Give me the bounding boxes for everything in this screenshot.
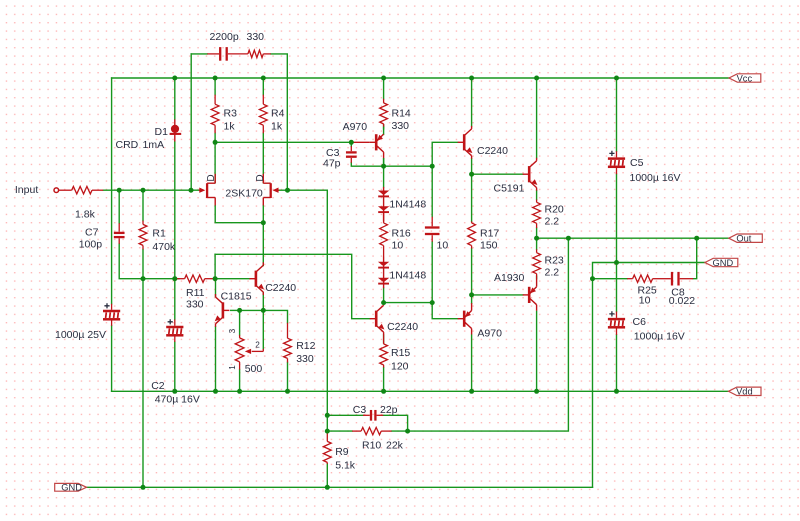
wire R3 bottom to drain [214, 133, 216, 183]
label R12 [296, 340, 315, 352]
label A970 lower [477, 327, 502, 339]
transistor Q9 C1815 [215, 294, 230, 327]
svg-text:0.022: 0.022 [669, 295, 695, 307]
label 1N4148 upper [389, 198, 426, 210]
svg-text:C2240: C2240 [477, 145, 508, 157]
svg-text:2.2: 2.2 [545, 267, 560, 279]
svg-text:330: 330 [296, 353, 314, 365]
label R9 [335, 446, 349, 458]
svg-text:1N4148: 1N4148 [389, 269, 426, 281]
label C5 [630, 157, 644, 169]
label comp cap value [437, 240, 449, 252]
label R16 value [392, 240, 404, 252]
svg-text:330: 330 [392, 120, 410, 132]
capacitor C6 1000u [608, 311, 625, 335]
wire C1815 base link [231, 309, 240, 311]
svg-text:C2240: C2240 [387, 321, 418, 333]
wire R4 bottom to drain2 [262, 133, 264, 183]
junction C3a top [349, 140, 354, 145]
label R10 [362, 440, 381, 452]
wire R11 node riser [214, 254, 216, 278]
junction A970a collector [381, 164, 386, 169]
label R1 [152, 227, 166, 239]
junction sources [261, 220, 266, 225]
transistor Q7 C5191 [523, 158, 538, 191]
svg-text:100p: 100p [79, 238, 103, 250]
transistor Q2b C2240 mid [249, 262, 264, 295]
junction fb upper [325, 413, 330, 418]
svg-text:R1: R1 [152, 227, 166, 239]
junction Vcc rail x215 [213, 76, 218, 81]
port Vdd [729, 387, 762, 397]
label R14 value [392, 120, 410, 132]
label pot 2 [255, 341, 260, 350]
svg-text:1k: 1k [224, 121, 236, 133]
wire Vbe node link [384, 302, 433, 304]
label R1 value [152, 241, 176, 253]
wire R20 bottom [536, 228, 538, 238]
label Q3 drain D [206, 174, 217, 181]
label R20 [545, 204, 564, 216]
label 330 loop [247, 31, 265, 43]
wire C5191 emitter to R20 [536, 191, 538, 200]
capacitor C7 [114, 223, 125, 244]
resistor R17 [468, 221, 476, 248]
wire sources to C2240b collector [262, 205, 264, 265]
wire diode leads upper [383, 187, 385, 222]
junction GND bottom R9 [325, 485, 330, 490]
capacitor C3 22p [363, 410, 383, 421]
wire Q6 emitter down [471, 295, 473, 304]
label 1.8k [75, 209, 96, 221]
label D1 CRD [116, 139, 139, 151]
svg-text:C7: C7 [85, 227, 99, 239]
label R12 value [296, 353, 314, 365]
wire comp cap top [431, 166, 433, 217]
svg-text:470k: 470k [152, 241, 176, 253]
junction fb lower [325, 429, 330, 434]
svg-text:D: D [255, 174, 266, 181]
junction Vdd rail x287 [285, 389, 290, 394]
junction input net x119 [117, 188, 122, 193]
wire source1 to source2 [215, 205, 263, 222]
wire C5191 collector up [536, 78, 538, 158]
wire A970a collector down [383, 159, 385, 187]
svg-text:470µ 16V: 470µ 16V [155, 393, 200, 405]
junction output x536 [534, 236, 539, 241]
svg-text:22p: 22p [380, 404, 398, 416]
wire R3 top [214, 78, 216, 95]
resistor R10 [352, 427, 391, 434]
wire GND right line [593, 263, 705, 279]
svg-text:1000µ 16V: 1000µ 16V [630, 172, 681, 184]
potentiometer VR1 500 [235, 335, 263, 370]
wire Vcc rail [112, 77, 729, 79]
junction bias net x215 [213, 276, 218, 281]
junction Vdd rail x239 [237, 389, 242, 394]
wire pot bottom lead [239, 370, 241, 392]
label D1 value [143, 139, 165, 151]
svg-text:C5191: C5191 [494, 182, 525, 194]
wire R12 bottom [287, 362, 289, 391]
capacitor 10 comp [425, 217, 440, 242]
svg-text:Vdd: Vdd [736, 387, 753, 397]
wire C3a top lead [350, 142, 352, 146]
diode D1 CRD [170, 119, 182, 141]
svg-text:150: 150 [480, 240, 498, 252]
junction fb right [405, 429, 410, 434]
label R25 [638, 285, 657, 297]
svg-text:C5: C5 [630, 157, 644, 169]
svg-text:2: 2 [255, 341, 260, 350]
wire feedback loop left [191, 53, 207, 55]
wire fb divider mid [326, 415, 328, 431]
svg-text:A970: A970 [343, 121, 368, 133]
junction Vdd rail x471 [469, 389, 474, 394]
wire drain line [215, 141, 352, 143]
wire Q2 emitter down [262, 293, 264, 311]
wire comp cap bottom [431, 242, 433, 303]
wire D1 top [174, 78, 176, 119]
label R17 value [480, 240, 498, 252]
junction base node pot [237, 308, 242, 313]
transistor Q5 C2240 lower [370, 302, 385, 335]
label C1815 [221, 290, 252, 302]
label R23 value [545, 267, 560, 279]
wire zobel line [593, 278, 628, 280]
svg-text:1k: 1k [271, 121, 283, 133]
wire R14 top [383, 78, 385, 99]
junction Vcc rail x616 [614, 76, 619, 81]
wire D1 bottom [174, 142, 176, 279]
label C2 [151, 380, 165, 392]
resistor R1 [139, 221, 147, 250]
label C8 value [669, 295, 695, 307]
resistor 330 loop [248, 50, 271, 57]
diode D4 1N4148 [378, 262, 389, 268]
wire R11 to Q2b base [215, 278, 250, 280]
transistor Q2 A970 upper [370, 134, 384, 158]
label C2240 upper [477, 145, 508, 157]
label C3b [353, 404, 367, 416]
svg-text:1000µ 25V: 1000µ 25V [55, 329, 106, 341]
transistor Q4 2SK170 right [263, 174, 279, 206]
label C3a value [323, 157, 341, 169]
svg-text:R23: R23 [545, 255, 564, 267]
label C2240 lower [387, 321, 418, 333]
label pot 1 [228, 365, 237, 370]
resistor R12 [284, 323, 292, 363]
wire C3b right hook [383, 415, 408, 431]
resistor R14 [380, 99, 388, 128]
capacitor 2200p [207, 47, 248, 61]
wire feedback loop right [271, 54, 288, 190]
svg-text:R20: R20 [545, 204, 564, 216]
transistor Q3 2SK170 left [199, 174, 215, 206]
label R4 value [271, 121, 283, 133]
label R3 value [224, 121, 236, 133]
wire loop left riser [190, 54, 192, 190]
wire left supply riser lower [111, 326, 113, 392]
svg-text:10: 10 [392, 240, 404, 252]
junction Vdd rail x616 [614, 389, 619, 394]
resistor R4 [259, 95, 267, 134]
wire base node line [240, 310, 288, 322]
svg-text:Vcc: Vcc [737, 73, 753, 83]
wire wiper riser [262, 310, 264, 349]
wire R14 to emitter [383, 127, 385, 134]
wire pot top lead [239, 310, 241, 335]
wire GND bottom line [87, 486, 593, 488]
diode D3 1N4148 [378, 206, 389, 212]
wire A970 base lead [352, 141, 370, 143]
wire Q6 base hook [432, 303, 458, 319]
label R9 value [335, 460, 356, 472]
svg-text:A970: A970 [477, 327, 502, 339]
label C6 value [634, 330, 685, 342]
wire R17 bottom [471, 249, 473, 295]
label R15 [391, 347, 410, 359]
svg-text:5.1k: 5.1k [335, 460, 356, 472]
wire C3b line [327, 414, 363, 416]
label C3a [326, 147, 340, 159]
svg-text:47p: 47p [323, 157, 341, 169]
label C2 value [155, 393, 200, 405]
wire Vdd rail [112, 390, 729, 392]
resistor R3 [211, 95, 219, 134]
svg-text:R11: R11 [186, 287, 205, 299]
svg-text:1000µ 16V: 1000µ 16V [634, 330, 685, 342]
diode D5 1N4148 [378, 278, 389, 284]
resistor R23 [533, 249, 541, 279]
label C7 value [79, 238, 103, 250]
label R15 value [391, 361, 409, 373]
resistor R16 [380, 213, 388, 256]
label 2200p [210, 31, 239, 43]
junction input net x191 [189, 188, 194, 193]
junction driver lower [469, 292, 474, 297]
junction driver upper [469, 172, 474, 177]
svg-text:1.8k: 1.8k [75, 209, 96, 221]
junction Vdd rail x536 [534, 389, 539, 394]
junction Vcc rail x263 [261, 76, 266, 81]
svg-text:D1: D1 [155, 126, 169, 138]
svg-text:C3: C3 [353, 404, 367, 416]
junction Q1 base [430, 164, 435, 169]
junction output x568 [566, 236, 571, 241]
capacitor C3 47p [346, 146, 357, 163]
svg-text:330: 330 [186, 298, 204, 310]
wire C6 bottom [616, 335, 618, 391]
wire R4 top [262, 78, 264, 95]
resistor R25 [627, 275, 666, 282]
resistor 1.8k input [59, 187, 103, 194]
label C6 [633, 316, 647, 328]
wire R1 top [142, 190, 144, 220]
label R16 [392, 228, 411, 240]
label R25 value [639, 295, 651, 307]
label D1 [155, 126, 169, 138]
resistor R15 [380, 335, 388, 367]
junction Vcc rail x536 [534, 76, 539, 81]
svg-text:120: 120 [391, 361, 409, 373]
wire diode string bottom [383, 288, 385, 302]
svg-text:R15: R15 [391, 347, 410, 359]
wire left supply riser [111, 78, 113, 304]
wire zobel up leg [693, 238, 697, 279]
wire input net [103, 189, 199, 191]
transistor Q8 A1930 [523, 279, 537, 310]
svg-text:CRD: CRD [116, 139, 139, 151]
svg-text:R16: R16 [392, 228, 411, 240]
svg-text:10: 10 [437, 240, 449, 252]
capacitor C8 [667, 272, 694, 286]
wire R10 line left [327, 430, 352, 432]
wire Q1 base hook [432, 142, 458, 166]
svg-text:R17: R17 [480, 228, 499, 240]
wire Q1 emitter down [471, 159, 473, 175]
wire Q5 emitter to R15 [383, 335, 385, 343]
resistor R9 [323, 431, 331, 464]
wire gate2 link [275, 189, 287, 191]
wire C3a bottom [351, 163, 432, 167]
transistor Q6 A970 lower [458, 303, 472, 334]
wire C5 top [616, 78, 618, 151]
label 1N4148 lower [389, 269, 426, 281]
svg-text:330: 330 [247, 31, 265, 43]
wire C1815 emitter down [215, 327, 217, 391]
junction Vdd rail x215 [213, 389, 218, 394]
label C7 [85, 227, 99, 239]
label R11 [186, 287, 205, 299]
wire A970a emitter net [383, 159, 385, 167]
junction bias net x174 [172, 276, 177, 281]
label pot 3 [228, 328, 237, 333]
svg-text:1mA: 1mA [143, 139, 165, 151]
svg-text:R9: R9 [335, 446, 349, 458]
svg-text:Input: Input [15, 184, 38, 196]
port GND right [705, 258, 738, 268]
svg-text:22k: 22k [386, 440, 404, 452]
wire output feedback drop [408, 238, 569, 431]
junction base node wiper [261, 308, 266, 313]
svg-text:2200p: 2200p [210, 31, 239, 43]
svg-text:C6: C6 [633, 316, 647, 328]
label R23 [545, 255, 564, 267]
svg-text:500: 500 [245, 363, 263, 375]
svg-text:GND: GND [713, 258, 734, 268]
wire R9 bottom [326, 464, 328, 487]
wire R17 top [471, 174, 473, 221]
label C5 value [630, 172, 681, 184]
junction Vbe right [430, 300, 435, 305]
wire R23 bottom to A1930 [536, 276, 538, 278]
svg-text:D: D [206, 174, 217, 181]
label Q4 drain D [255, 174, 266, 181]
wire R10 to fb [392, 430, 408, 432]
wire C5 to C6 [616, 174, 618, 311]
label R3 [224, 108, 238, 120]
label R20 value [545, 216, 560, 228]
wire diode leads lower [383, 257, 385, 289]
node Input terminal [54, 188, 59, 193]
port Vcc [729, 73, 761, 83]
junction zobel left [590, 276, 595, 281]
junction Vcc rail x383 [381, 76, 386, 81]
junction output x696 [694, 236, 699, 241]
port GND left [55, 483, 87, 493]
label Input [15, 184, 38, 196]
label A1930 [494, 272, 525, 284]
wire output line [537, 237, 729, 239]
svg-text:C2240: C2240 [265, 282, 296, 294]
junction input net x287 [285, 188, 290, 193]
wire Q1 collector up [471, 78, 473, 126]
wire driver node to C5191 [472, 173, 523, 175]
label C5191 [494, 182, 525, 194]
svg-text:1N4148: 1N4148 [389, 198, 426, 210]
label R17 [480, 228, 499, 240]
label 1000u25V [55, 329, 106, 341]
label 2SK170 [225, 188, 263, 200]
svg-text:C2: C2 [151, 380, 165, 392]
wire R15 bottom [383, 368, 385, 392]
junction Vbe left [381, 300, 386, 305]
junction GND bottom R1 [141, 485, 146, 490]
svg-text:R3: R3 [224, 108, 238, 120]
junction Vcc rail x471 [469, 76, 474, 81]
capacitor C5 1000u [608, 151, 625, 174]
wire A1930 collector to Vdd [536, 311, 538, 391]
junction drain node [213, 140, 218, 145]
svg-text:Out: Out [736, 234, 751, 244]
wire C2 bottom [174, 279, 176, 320]
transistor Q1 C2240 upper [458, 126, 473, 159]
svg-text:GND: GND [61, 483, 82, 493]
svg-text:R14: R14 [392, 108, 411, 120]
wire C7 bottom hook [119, 244, 179, 279]
svg-text:3: 3 [228, 328, 237, 333]
junction bias net x143 [141, 276, 146, 281]
capacitor bulk 1000u 25V [103, 303, 120, 326]
wire C7 hang [118, 190, 120, 223]
wire R23 top [536, 238, 538, 249]
junction GND C5C6 [614, 260, 619, 265]
wire C1815 collector up [215, 279, 217, 297]
wire R14 bottom [383, 125, 385, 129]
label R10 value [386, 440, 404, 452]
diode D2 1N4148 [378, 191, 389, 197]
wire C2 to Vdd [174, 342, 176, 391]
svg-text:10: 10 [639, 295, 651, 307]
wire R1 bottom to GND [142, 249, 144, 487]
svg-text:2.2: 2.2 [545, 216, 560, 228]
wire R11 node to Q5 base [215, 254, 370, 318]
resistor R20 [533, 200, 541, 229]
resistor R11 [177, 275, 216, 282]
port Out [729, 234, 763, 244]
svg-text:1: 1 [228, 365, 237, 370]
label C8 [671, 286, 685, 298]
wire GND drop to bottom [592, 279, 594, 488]
capacitor C2 470u [166, 319, 183, 342]
junction Vcc rail x174 [172, 76, 177, 81]
junction Vdd rail x174 [172, 389, 177, 394]
label R14 [392, 108, 411, 120]
junction Vdd rail x383 [381, 389, 386, 394]
svg-text:A1930: A1930 [494, 272, 525, 284]
label R4 [271, 108, 285, 120]
